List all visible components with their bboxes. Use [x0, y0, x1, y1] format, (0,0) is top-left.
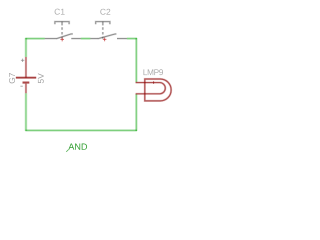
battery G7 long plate [16, 76, 36, 79]
lamp LMP9 polarity tick [153, 81, 155, 84]
battery G7 short plate [23, 81, 30, 84]
wire top-left horizontal [25, 37, 44, 40]
switch C1 label [55, 9, 65, 15]
switch C1 lever [56, 34, 73, 39]
wire bottom horizontal [25, 129, 136, 132]
switch C2 button bracket [96, 22, 110, 25]
net label AND [68, 144, 87, 150]
switch C1 button bracket [55, 22, 69, 25]
switch C1 red plus mark [60, 38, 64, 42]
wire left vertical lower [25, 93, 28, 131]
switch C2 plunger dashed link [102, 27, 104, 38]
switch C2 right pin [117, 37, 127, 39]
wire left vertical upper [25, 38, 28, 57]
wire C2 to top-right corner [127, 37, 137, 40]
switch C2 left pin [90, 37, 97, 39]
lamp LMP9 label [143, 69, 163, 75]
battery G7 positive pin [25, 57, 27, 78]
lamp LMP9 outer shell [145, 79, 171, 101]
wire right vertical upper [135, 38, 138, 82]
switch C1 plunger dashed link [61, 27, 63, 38]
switch C2 label [100, 9, 110, 15]
switch C2 lever [98, 34, 117, 39]
wire between C1 and C2 [81, 37, 91, 40]
switch C1 left pin [45, 37, 57, 39]
lamp LMP9 terminals and filament stadium [136, 83, 166, 94]
battery label G7 [9, 73, 15, 83]
cursor tick at AND [66, 150, 68, 152]
switch C1 plunger [61, 22, 63, 26]
battery value 5V [38, 73, 44, 83]
wire right vertical lower [135, 94, 138, 131]
switch C1 right pin [71, 37, 81, 39]
battery G7 negative pin [25, 84, 27, 94]
switch C2 plunger [102, 22, 104, 26]
switch C2 red plus mark [103, 38, 107, 42]
battery minus mark [20, 85, 22, 87]
battery plus mark [21, 59, 24, 62]
